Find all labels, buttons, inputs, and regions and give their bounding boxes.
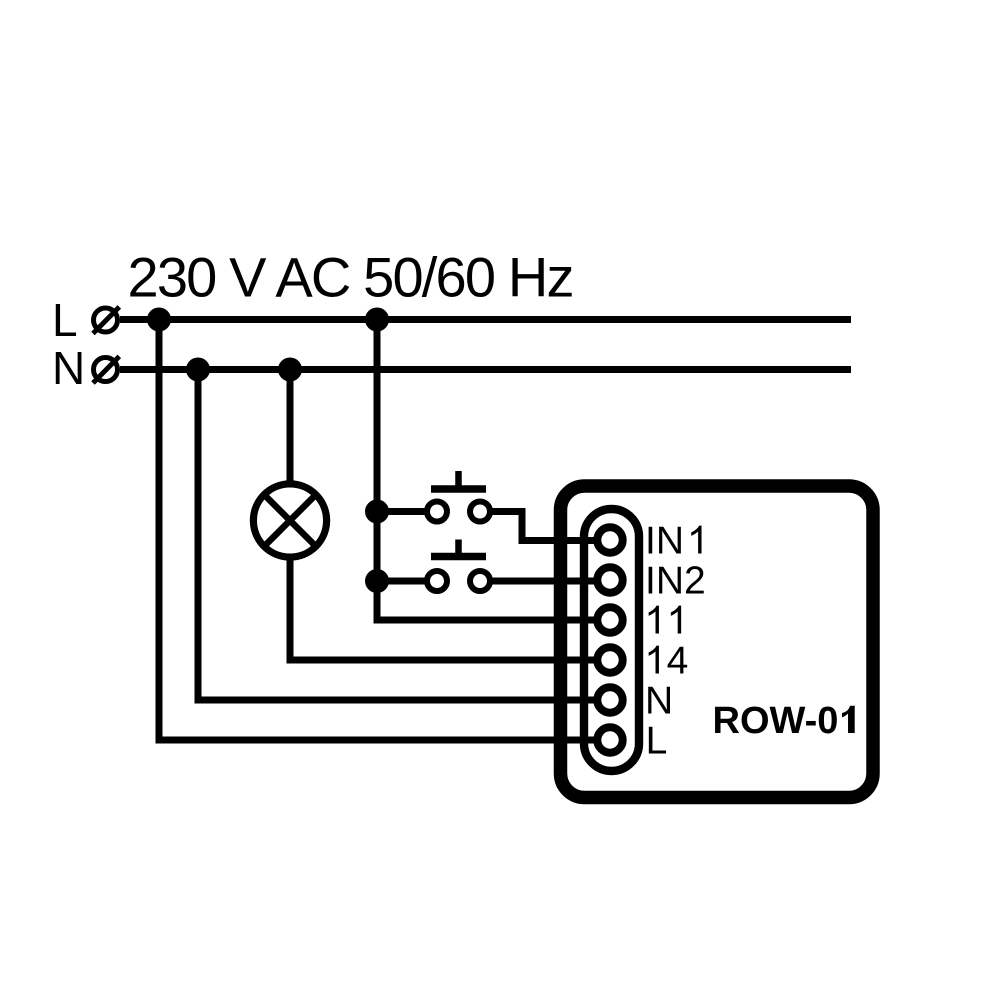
svg-text:L: L <box>646 720 668 763</box>
terminal IN2 <box>597 567 622 592</box>
wire to button S1 <box>377 508 428 515</box>
terminal stub IN1 <box>569 537 600 544</box>
junction on N at x198 <box>186 358 210 382</box>
wire to button S2 <box>377 578 428 585</box>
push button S1 <box>427 471 490 522</box>
terminal symbol L <box>93 307 119 334</box>
junction on L at x377 <box>365 308 389 332</box>
junction btn2 feed <box>365 569 389 593</box>
terminal 14 <box>597 647 622 672</box>
wire L drop to module L <box>159 320 600 741</box>
wire S2 to module IN2 <box>492 578 600 585</box>
wire lamp to module 14 <box>290 558 600 660</box>
junction on L at x159 <box>147 308 171 332</box>
terminal 11 <box>597 607 622 632</box>
pin label 11 <box>649 606 659 634</box>
pin label 14 <box>649 646 659 674</box>
terminal N <box>597 687 622 712</box>
svg-text:IN2: IN2 <box>645 560 706 603</box>
push button S2 <box>427 540 490 592</box>
wire L drop to buttons and module 11 <box>377 320 600 621</box>
terminal L <box>597 727 622 752</box>
wire N bus <box>120 366 851 373</box>
terminal symbol N <box>93 356 119 383</box>
junction btn1 feed <box>365 500 389 524</box>
junction on N at x290 <box>278 358 302 382</box>
lamp E1 <box>253 484 326 557</box>
svg-text:N: N <box>645 680 673 723</box>
wire N drop to module N <box>198 370 600 701</box>
terminal block <box>584 509 639 771</box>
wire N drop to lamp <box>287 370 294 485</box>
wire L bus <box>120 316 851 323</box>
svg-text:4: 4 <box>667 640 689 683</box>
svg-text:230 V AC 50/60 Hz: 230 V AC 50/60 Hz <box>128 246 575 309</box>
module ROW-01 body <box>561 486 874 798</box>
terminal IN1 <box>597 527 622 552</box>
wire S1 to module IN1 <box>492 512 600 541</box>
svg-text:N: N <box>52 342 85 394</box>
svg-text:IN: IN <box>645 520 684 563</box>
svg-text:ROW-0: ROW-0 <box>713 700 839 742</box>
svg-text:L: L <box>52 294 78 346</box>
